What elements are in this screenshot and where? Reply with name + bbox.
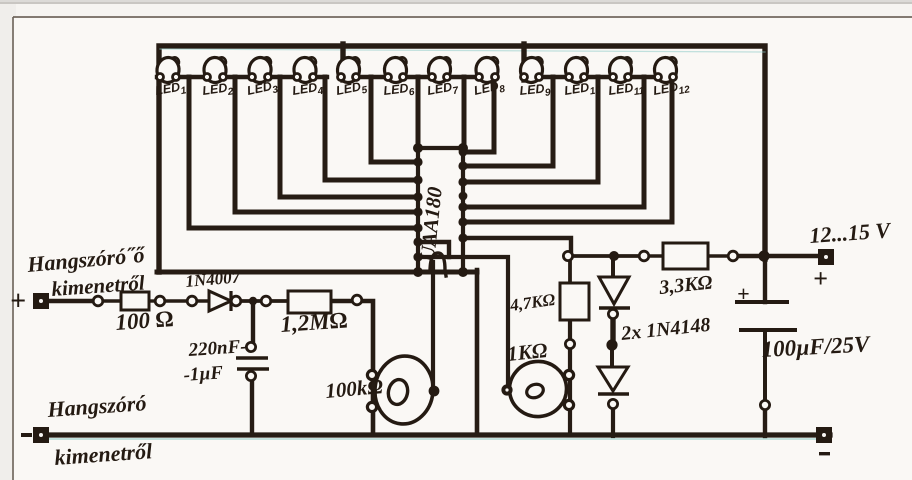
wire 1.2M to corner <box>331 301 373 435</box>
capacitor C2 100uF/25V electrolytic <box>735 302 797 330</box>
wire 100ohm to circle <box>149 299 156 302</box>
wire LED11 cathode to IC <box>463 77 644 207</box>
wire LED2 cathode to IC <box>235 77 418 212</box>
wire IC ground drop <box>475 270 480 435</box>
wire LED8 cathode to IC <box>463 77 494 152</box>
wire LED12 cathode to IC <box>463 77 672 222</box>
wire 4.7k bottom to rail <box>568 320 572 435</box>
wire LED row segment 3 <box>524 75 674 79</box>
wire circle to circle <box>164 299 188 302</box>
wire 4.7k top lead <box>568 258 572 284</box>
junction dots <box>249 250 770 396</box>
wire LED7 cathode to IC top <box>462 77 467 150</box>
capacitor C1 220nF-1uF <box>236 358 269 369</box>
wire bus drop to LED5 <box>340 44 345 80</box>
potentiometer P1 100k <box>372 353 437 427</box>
wire cap circle to rail <box>763 409 767 436</box>
svg-text:100 Ω: 100 Ω <box>115 306 175 335</box>
LED D11 <box>607 57 645 102</box>
diode D2 1N4148 <box>599 277 630 308</box>
wire IC pin to 4.7k node <box>463 238 571 257</box>
LED D4 <box>291 56 324 101</box>
wire LED3 cathode to IC <box>280 77 418 197</box>
svg-text:1,2MΩ: 1,2MΩ <box>280 307 349 337</box>
LED D7 <box>426 56 460 101</box>
svg-text:+: + <box>10 286 26 317</box>
wire cap drop upper <box>251 301 255 343</box>
wire bus drop to LED9 <box>521 44 526 80</box>
wire LED row segment 2 <box>341 75 496 79</box>
svg-text:1KΩ: 1KΩ <box>506 338 549 366</box>
potentiometer P2 1k <box>507 359 569 419</box>
LED D12 <box>652 57 691 102</box>
wire LED10 cathode to IC <box>463 77 598 182</box>
wire LED5 cathode to IC <box>371 77 418 162</box>
wire IC wiper to 100k pot <box>431 262 435 390</box>
wire supply node segment <box>572 254 640 258</box>
wire diode to cap junction <box>233 299 262 303</box>
wire diode chain top <box>611 257 615 277</box>
diode D1 1N4007 <box>209 291 231 311</box>
wire junction to 1.2M <box>270 299 288 303</box>
IC pin dots left <box>413 143 423 277</box>
wire IC to 1k pot <box>420 257 508 390</box>
wire LED4 cathode to IC <box>325 77 418 180</box>
terminal supply minus <box>816 427 832 443</box>
terminal supply plus <box>818 249 834 265</box>
wire to 100ohm <box>102 299 121 302</box>
terminal input minus <box>21 433 32 437</box>
wire LED9 cathode to IC <box>463 77 553 166</box>
svg-text:-1µF: -1µF <box>183 362 224 386</box>
LED D2 <box>201 57 234 102</box>
resistor R1 100ohm <box>121 292 149 310</box>
wire node to 3.3k <box>648 254 663 257</box>
LED D5 <box>335 57 369 102</box>
wire between 1N4148 diodes <box>610 319 615 342</box>
resistor R4 3.3k <box>663 243 708 269</box>
wire diode2 top <box>610 348 614 367</box>
wire bottom ground rail <box>41 432 830 437</box>
LED D6 <box>383 57 416 102</box>
svg-text:220nF-: 220nF- <box>187 336 247 361</box>
wire top supply bus <box>159 46 765 272</box>
IC pin dots right <box>458 143 468 277</box>
wire ground long rail y272 <box>157 270 477 275</box>
wire LED1 cathode to IC <box>189 77 418 228</box>
open terminal circles <box>93 251 769 411</box>
wire circle to +terminal <box>737 254 820 259</box>
resistor R3 4.7k vertical <box>560 283 589 320</box>
wire input + lead <box>49 299 94 303</box>
LED D8 <box>473 57 507 101</box>
diode D3 1N4148 <box>598 367 629 394</box>
wire diode chain to rail <box>611 408 615 436</box>
wire LED row segment 1 <box>157 75 327 79</box>
wire 3.3k to circle <box>708 254 728 257</box>
IC UAA180 <box>416 148 465 276</box>
LED D10 <box>563 56 602 101</box>
LED D1 <box>154 56 188 101</box>
svg-text:+: + <box>737 281 750 306</box>
wire cap drop lower <box>250 381 254 435</box>
wire cap bottom lead <box>763 330 767 401</box>
wire LED6 cathode to IC top <box>416 77 421 150</box>
LED D3 <box>246 56 280 101</box>
LED D9 <box>519 56 552 101</box>
resistor R2 1.2Mohm <box>288 291 331 313</box>
wire IC pin jog left <box>418 242 449 257</box>
wire cap top lead <box>763 254 767 302</box>
wire to diode <box>196 299 209 302</box>
svg-text:+: + <box>813 264 828 293</box>
